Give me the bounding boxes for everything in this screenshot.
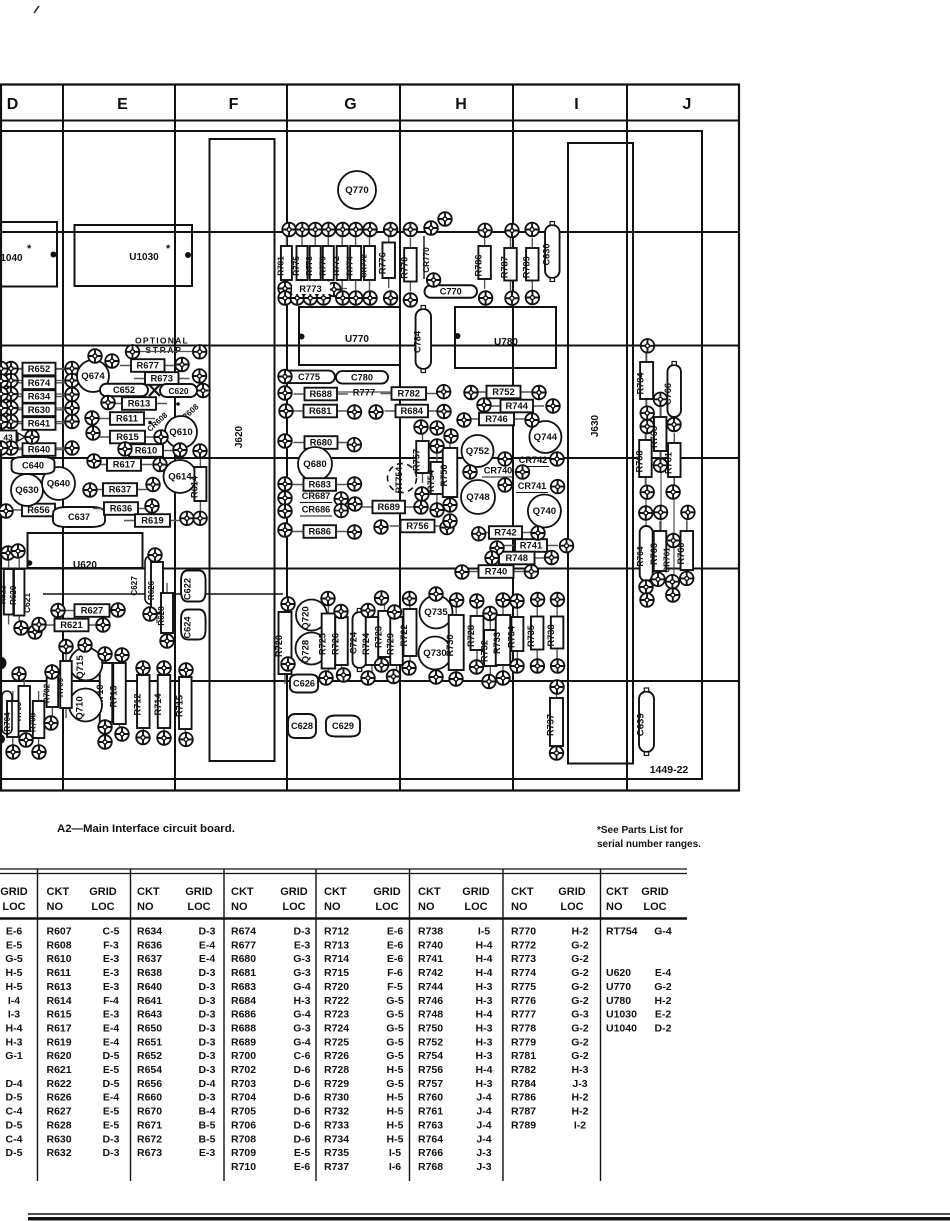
diode CR742 [517,455,549,467]
svg-text:R643: R643 [137,1009,162,1021]
pad [153,458,167,472]
svg-text:D-3: D-3 [199,981,216,993]
svg-text:E-6: E-6 [387,939,404,951]
pad [525,223,539,237]
pad [101,396,115,410]
svg-text:R652: R652 [28,363,50,374]
pad [463,465,477,479]
svg-text:I: I [574,96,578,113]
pad [490,541,504,555]
svg-text:C621: C621 [22,593,32,613]
pad [154,430,168,444]
svg-text:R709: R709 [231,1147,256,1159]
svg-text:R614: R614 [189,475,199,498]
svg-text:R750: R750 [439,465,449,487]
svg-text:R620: R620 [9,585,18,605]
svg-text:R689: R689 [231,1036,256,1048]
svg-text:R636: R636 [110,503,132,514]
resistor R680 [294,436,349,449]
svg-text:R729: R729 [324,1078,349,1090]
svg-text:R781: R781 [511,1050,536,1062]
resistor R702 [42,664,58,717]
resistor R778 [305,236,321,290]
resistor R784 [636,352,654,409]
pad [105,354,119,368]
svg-text:C626: C626 [293,679,315,689]
svg-text:R774: R774 [511,967,536,979]
svg-text:Q640: Q640 [47,479,70,490]
pad [551,659,565,673]
IC U770 [299,307,400,365]
svg-text:R634: R634 [137,926,162,938]
svg-text:D-5: D-5 [6,1147,23,1159]
svg-text:R712: R712 [132,694,142,716]
svg-text:I-6: I-6 [389,1161,401,1173]
svg-text:D-2: D-2 [655,1022,672,1034]
resistor R715 [174,667,191,739]
board outer frame [0,83,740,85]
svg-text:R741: R741 [418,953,443,965]
resistor R684 [385,405,440,418]
transistor Q610 [165,416,197,448]
pad [640,406,654,420]
pad [12,667,26,681]
svg-text:R722: R722 [399,625,409,647]
svg-text:R728: R728 [466,625,476,647]
svg-text:R732: R732 [479,640,489,662]
svg-text:R728: R728 [324,1064,349,1076]
resistor R768 [634,430,651,487]
diode CR761 [663,547,672,573]
svg-text:H-3: H-3 [294,995,311,1007]
pad [6,745,20,759]
svg-text:D: D [7,96,19,113]
svg-text:R713: R713 [324,939,349,951]
resistor R712 [132,665,149,738]
resistor R722 [399,599,417,666]
svg-text:R683: R683 [309,479,331,490]
svg-text:Q728: Q728 [301,639,312,663]
pad [175,358,189,372]
pad [111,603,125,617]
pad [525,413,539,427]
svg-text:*: * [166,243,171,255]
svg-text:R778: R778 [511,1022,536,1034]
svg-text:R737: R737 [546,714,556,736]
resistor R748 [488,552,546,565]
svg-text:Q752: Q752 [466,446,489,457]
pad [83,483,97,497]
svg-text:E-3: E-3 [103,1009,120,1021]
wire strap [126,351,207,353]
svg-text:R775: R775 [511,981,536,993]
svg-text:R782: R782 [511,1064,536,1076]
resistor R688 [294,388,349,401]
svg-text:LOC: LOC [2,901,25,913]
svg-text:G-5: G-5 [386,1078,404,1090]
capacitor C629 [326,716,360,737]
svg-text:D-6: D-6 [294,1064,311,1076]
svg-text:CR740: CR740 [484,466,513,476]
svg-text:R778: R778 [305,256,314,276]
pad [440,521,454,535]
pad [65,362,79,376]
svg-text:R742: R742 [494,527,516,538]
svg-text:A2—Main Interface circuit boar: A2—Main Interface circuit board. [57,823,235,835]
pad [193,345,207,359]
svg-text:CKT: CKT [137,886,160,898]
wire R773 net [283,288,347,290]
svg-text:R673: R673 [137,1147,162,1159]
svg-text:R622: R622 [0,585,8,604]
svg-text:D-5: D-5 [6,1119,23,1131]
svg-text:R700: R700 [231,1050,256,1062]
svg-text:R652: R652 [137,1050,162,1062]
resistor R627 [64,604,121,617]
svg-text:*See Parts List for: *See Parts List for [597,825,683,836]
capacitor C626 [290,675,318,693]
resistor R615 [99,431,156,444]
svg-text:R713: R713 [109,686,119,708]
svg-text:R627: R627 [81,605,103,616]
svg-text:Q710: Q710 [75,696,86,719]
svg-text:GRID: GRID [89,886,117,898]
svg-text:J-3: J-3 [476,1147,491,1159]
svg-text:RT754: RT754 [606,926,638,938]
svg-text:R734: R734 [324,1133,349,1145]
svg-text:LOC: LOC [187,901,210,913]
pad [363,223,377,237]
svg-text:R677: R677 [137,360,159,371]
svg-text:R752: R752 [418,1036,443,1048]
svg-text:R770: R770 [511,926,536,938]
svg-text:R756: R756 [418,1064,443,1076]
resistor R652 [12,363,67,376]
svg-text:R723: R723 [374,626,384,648]
svg-text:R748: R748 [506,552,528,563]
svg-text:R610: R610 [135,445,157,456]
svg-text:H-5: H-5 [6,967,23,979]
svg-text:R760: R760 [418,1092,443,1104]
resistor R776 [378,233,395,289]
svg-text:U780: U780 [494,337,518,348]
pad [0,387,8,401]
pad [336,223,350,237]
pad [560,539,574,553]
svg-text:H-4: H-4 [476,939,493,951]
pad [455,565,469,579]
thermistor RT754 [388,464,417,494]
pad [0,441,8,455]
svg-text:R715: R715 [174,695,184,717]
pad [639,506,653,520]
svg-text:C770: C770 [440,287,462,297]
pad [532,386,546,400]
pad [334,605,348,619]
svg-text:R636: R636 [137,939,162,951]
svg-text:R688: R688 [310,388,332,399]
svg-text:STRAP: STRAP [145,345,182,355]
transistor Q630 [11,474,43,506]
svg-text:CR687: CR687 [302,491,331,501]
pad [296,223,310,237]
svg-text:GRID: GRID [0,886,28,898]
resistor R613 [111,397,167,410]
pad [278,386,292,400]
svg-text:R688: R688 [231,1022,256,1034]
transistor Q710 [69,689,102,722]
board inner outline [0,131,702,779]
svg-text:D-3: D-3 [199,995,216,1007]
pad [429,670,443,684]
svg-text:R671: R671 [137,1119,162,1131]
pad [348,525,362,539]
svg-text:C640: C640 [22,461,44,471]
svg-text:R720: R720 [324,981,349,993]
pad [430,421,444,435]
svg-text:R712: R712 [324,926,349,938]
svg-text:R627: R627 [47,1106,72,1118]
pad [482,675,496,689]
svg-text:D-3: D-3 [199,1092,216,1104]
svg-text:R779: R779 [511,1036,536,1048]
pad [510,594,524,608]
svg-text:D-5: D-5 [103,1050,120,1062]
svg-text:E-6: E-6 [294,1161,311,1173]
svg-text:R746: R746 [485,413,507,424]
svg-text:F-5: F-5 [387,981,403,993]
svg-text:R637: R637 [109,484,131,495]
svg-text:R722: R722 [324,995,349,1007]
pad [118,442,132,456]
pad [641,339,655,353]
diode CR770 [422,236,431,279]
pad [278,504,292,518]
svg-text:NO: NO [606,901,623,913]
resistor R773 label [292,282,330,295]
pad [96,618,110,632]
svg-text:U1030: U1030 [129,252,159,263]
pad [546,399,560,413]
svg-text:I-2: I-2 [574,1119,586,1131]
svg-text:C-5: C-5 [103,926,120,938]
pad [666,588,680,602]
pad [45,665,59,679]
svg-text:CKT: CKT [418,886,441,898]
svg-text:J-3: J-3 [476,1161,491,1173]
resistor R781 [276,236,292,290]
svg-text:D-3: D-3 [103,1147,120,1159]
svg-text:R720: R720 [274,635,284,657]
svg-text:H: H [455,96,467,113]
pad [404,223,418,237]
svg-text:D-6: D-6 [294,1092,311,1104]
pad [282,223,296,237]
svg-text:D-6: D-6 [294,1133,311,1145]
svg-text:GRID: GRID [558,886,586,898]
resistor R740 [468,565,525,578]
svg-text:LOC: LOC [643,901,666,913]
svg-text:R776: R776 [511,995,536,1007]
svg-text:R626: R626 [147,580,156,600]
svg-text:R787: R787 [511,1106,536,1118]
svg-text:H-5: H-5 [387,1092,404,1104]
svg-text:OPTIONAL: OPTIONAL [135,336,189,346]
svg-text:R689: R689 [378,501,400,512]
pad [85,411,99,425]
svg-text:R683: R683 [231,981,256,993]
svg-text:Q630: Q630 [15,485,38,496]
pad [278,477,292,491]
svg-text:R756: R756 [406,520,428,531]
svg-text:E-5: E-5 [103,1064,120,1076]
parts location table [0,868,687,870]
svg-text:R724: R724 [361,632,371,655]
pad [319,671,333,685]
pad [680,572,694,586]
svg-text:R740: R740 [485,566,507,577]
svg-text:R781: R781 [276,256,285,276]
svg-text:J: J [683,96,692,113]
resistor R775 [292,236,308,290]
svg-text:*: * [27,243,32,255]
pad [348,477,362,491]
svg-text:serial number ranges.: serial number ranges. [597,839,701,850]
svg-text:R777: R777 [353,387,375,398]
svg-text:G-2: G-2 [571,967,589,979]
pad [65,415,79,429]
svg-text:R773: R773 [511,953,536,965]
resistor R732 [479,620,496,676]
IC U620 [28,533,143,568]
capacitor C622 [181,571,206,602]
resistor R689 [362,501,417,514]
pad [429,587,443,601]
svg-text:R615: R615 [47,1009,72,1021]
pad [640,420,654,434]
pad [32,745,46,759]
svg-text:C622: C622 [182,578,192,600]
svg-text:R684: R684 [231,995,256,1007]
svg-text:E-5: E-5 [294,1147,311,1159]
resistor R617 [96,458,152,471]
svg-text:R686: R686 [309,526,331,537]
pad [349,223,363,237]
svg-text:R672: R672 [137,1133,162,1145]
svg-text:G-2: G-2 [571,1022,589,1034]
resistor R628 [157,583,173,643]
svg-text:G-5: G-5 [386,1036,404,1048]
pad [193,369,207,383]
svg-text:Q715: Q715 [75,655,86,679]
svg-text:Q730: Q730 [423,648,446,659]
pad [403,592,417,606]
pad [78,638,92,652]
resistor R787 [500,238,517,291]
pad [136,731,150,745]
svg-text:R744: R744 [418,981,443,993]
svg-text:E-3: E-3 [199,1147,216,1159]
pad [65,374,79,388]
svg-text:GRID: GRID [641,886,669,898]
resistor R786 [474,236,491,289]
pad [666,485,680,499]
transistor Q730 [419,637,452,670]
pad [639,580,653,594]
resistor R643 [0,431,25,444]
pad [4,401,18,415]
svg-text:R704: R704 [3,712,12,732]
svg-text:R708: R708 [231,1133,256,1145]
svg-text:R714: R714 [153,693,163,716]
resistor R735 [526,607,543,660]
svg-text:G-5: G-5 [5,953,23,965]
svg-text:H-3: H-3 [572,1064,589,1076]
scan mark [34,6,39,13]
pad [361,671,375,685]
svg-text:R777: R777 [511,1009,536,1021]
transistor Q614 [164,460,197,493]
svg-text:R715: R715 [324,967,349,979]
resistor R674 [12,377,67,390]
svg-text:R726: R726 [331,633,341,655]
resistor R789 [521,238,538,291]
resistor R611 [99,412,155,425]
svg-text:F-4: F-4 [103,995,119,1007]
diode CR772 [360,236,376,290]
pad [321,592,335,606]
resistor R656 [11,504,66,517]
svg-text:R784: R784 [511,1078,536,1090]
pad [281,597,295,611]
connector J620 [210,139,275,761]
svg-text:R733: R733 [492,632,502,654]
pad [470,660,484,674]
svg-text:H-4: H-4 [476,967,493,979]
svg-text:I-4: I-4 [8,995,20,1007]
svg-text:R677: R677 [231,939,256,951]
svg-text:G-4: G-4 [293,1009,311,1021]
resistor R704 [3,691,19,747]
svg-text:R620: R620 [47,1050,72,1062]
resistor R610 [118,444,174,457]
svg-text:R754: R754 [418,1050,443,1062]
pad [98,647,112,661]
svg-text:D-3: D-3 [199,1050,216,1062]
pad [402,661,416,675]
pad [437,385,451,399]
svg-text:R619: R619 [47,1036,72,1048]
svg-text:R730: R730 [324,1092,349,1104]
svg-text:E-3: E-3 [294,939,311,951]
pad [334,504,348,518]
pad [4,374,18,388]
svg-text:CR741: CR741 [518,481,547,491]
svg-text:H-3: H-3 [476,1036,493,1048]
svg-text:U1030: U1030 [606,1009,637,1021]
svg-text:R614: R614 [47,995,72,1007]
svg-text:I-5: I-5 [478,926,490,938]
capacitor C624 [181,610,206,640]
pad [337,668,351,682]
svg-text:D-6: D-6 [294,1078,311,1090]
svg-text:H-2: H-2 [572,926,589,938]
pad [278,370,292,384]
svg-text:R766: R766 [418,1147,443,1159]
resistor R634 [12,390,67,403]
svg-text:LOC: LOC [282,901,305,913]
svg-text:R617: R617 [47,1022,72,1034]
